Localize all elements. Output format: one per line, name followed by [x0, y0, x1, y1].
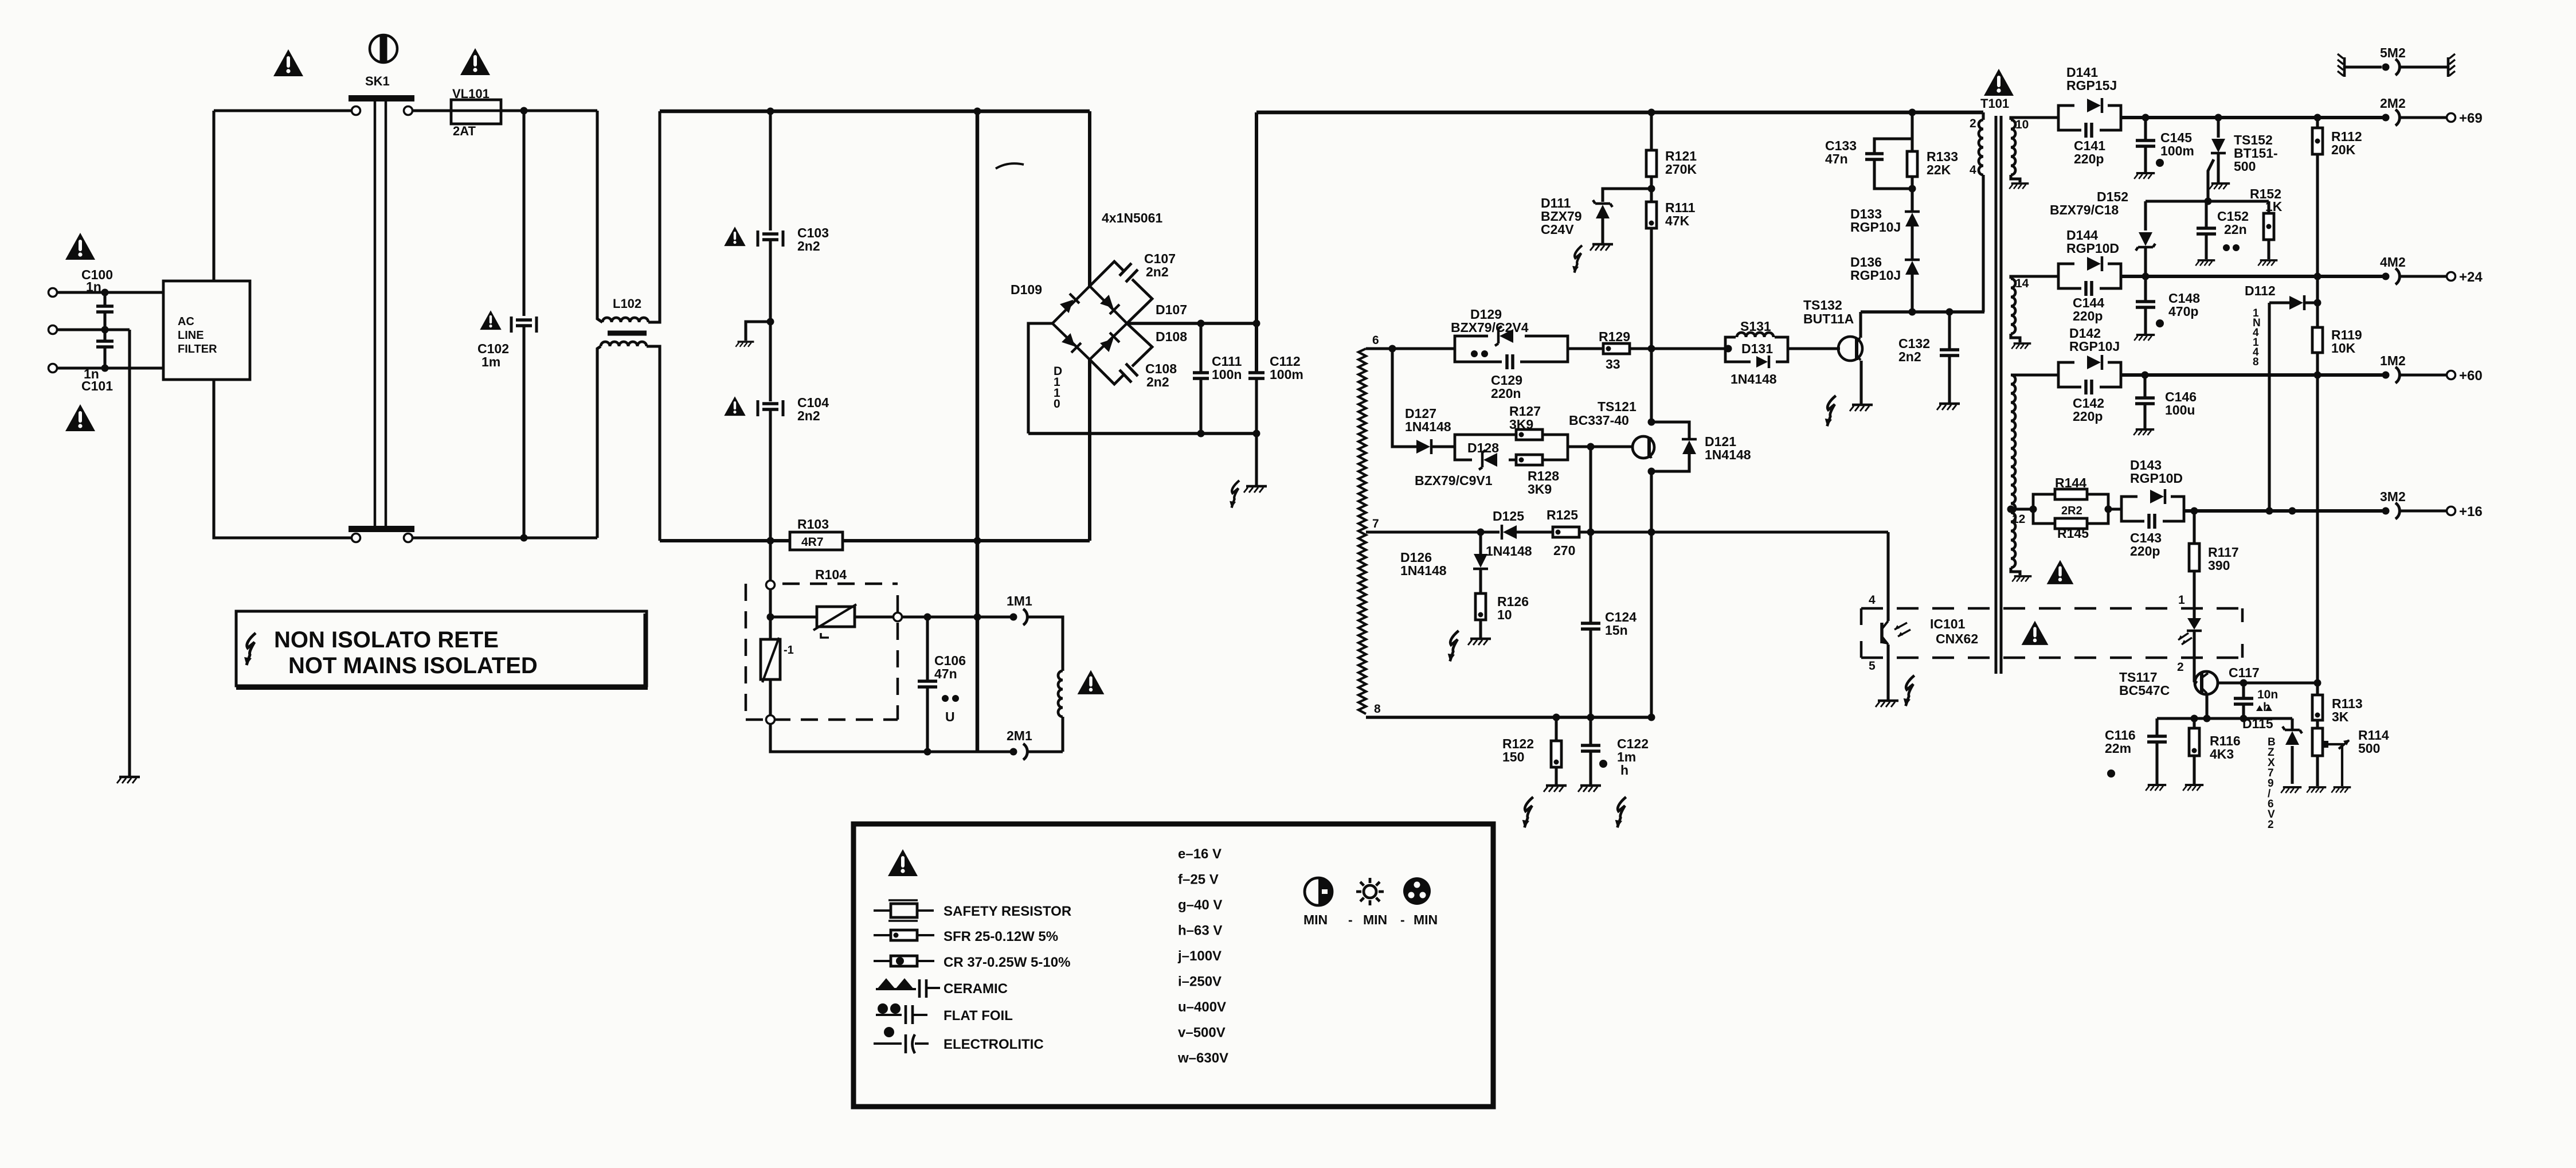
legend saturation icon [1403, 877, 1431, 905]
ground R114 [2307, 787, 2326, 792]
junction [2142, 273, 2150, 280]
legend ceramic capacitor [877, 978, 914, 989]
svg-text:e–16 V: e–16 V [1178, 846, 1222, 862]
resistor R144 2R2 [2055, 489, 2087, 499]
svg-text:20K: 20K [2331, 142, 2356, 157]
warning triangle [2047, 560, 2074, 584]
wire D126 to R126 [1479, 569, 1482, 593]
junction [101, 365, 109, 372]
wire C124 to pin8 rail [1589, 629, 1592, 717]
svg-text:1N4148: 1N4148 [1731, 372, 1777, 386]
capacitor C146 100u [2135, 398, 2155, 404]
wire 2M1 to coil [1028, 750, 1063, 753]
wire D125 to R125 [1516, 530, 1553, 533]
zener diode D129 BZX79/C2V4 [1500, 329, 1513, 343]
wire TS152 gate [2208, 159, 2214, 201]
wire gate line [2146, 200, 2269, 202]
node TS121 base [1587, 443, 1595, 451]
wire to TS121 base [1568, 445, 1633, 448]
terminal +69 [2447, 114, 2456, 122]
legend brightness icon [1364, 885, 1376, 898]
transformer T101 feedback winding pins 6-7-8 [1359, 349, 1366, 714]
AC line filter block [163, 281, 250, 380]
svg-text:SAFETY RESISTOR: SAFETY RESISTOR [944, 904, 1071, 919]
svg-text:2R2: 2R2 [2061, 505, 2082, 517]
wire degauss feed vertical [976, 111, 980, 752]
svg-text:R145: R145 [2057, 526, 2089, 541]
inductor S131 [1737, 333, 1774, 337]
wire C148 bottom [2144, 307, 2147, 334]
svg-text:C101: C101 [81, 378, 113, 393]
degauss PTC R104 dashed box [746, 584, 898, 720]
svg-text:10n: 10n [2257, 688, 2278, 701]
svg-text:2: 2 [2177, 661, 2184, 674]
wire R116 bottom [2193, 756, 2195, 784]
node mains input N [49, 326, 57, 334]
wire C102 top lead [522, 111, 525, 316]
wire to C103 [769, 111, 772, 231]
svg-text:47n: 47n [1825, 151, 1848, 166]
degaussing coil [1058, 671, 1063, 717]
wire C112 from DC rail [1255, 112, 1258, 372]
node winding12 tap [2007, 506, 2015, 513]
flat foil marker C106 [942, 695, 949, 702]
resistor R129 33 [1603, 343, 1630, 354]
svg-text:i–250V: i–250V [1178, 974, 1222, 990]
svg-text:100m: 100m [1270, 367, 1303, 382]
diode D109 (bridge upper-left) [1059, 294, 1079, 314]
svg-text:MIN: MIN [1414, 912, 1438, 927]
junction [2266, 507, 2273, 515]
wire R117 top [2193, 511, 2195, 544]
junction [101, 289, 109, 296]
svg-text:1n: 1n [86, 279, 101, 294]
svg-text:1M2: 1M2 [2380, 353, 2406, 368]
legend contrast icon [1305, 878, 1332, 905]
wire to D111 [1603, 189, 1651, 202]
node C102 bottom [520, 534, 528, 542]
junction [1553, 714, 1560, 721]
capacitor C148 470p [2136, 302, 2155, 307]
wire C146 top [2143, 375, 2146, 397]
wire D115 top [2291, 718, 2293, 730]
wire 1M1 to degauss coil [1028, 617, 1063, 671]
wire TS121 emitter down [1650, 471, 1653, 717]
svg-text:RGP15J: RGP15J [2066, 78, 2117, 93]
svg-text:1m: 1m [481, 354, 500, 369]
wire winding14 to ground [2011, 334, 2020, 342]
warning triangle [1984, 69, 2014, 96]
wire C101 top lead [103, 330, 106, 341]
lightning not-isolated mark [1615, 797, 1626, 827]
terminal +60 [2447, 371, 2456, 380]
junction [2215, 114, 2222, 122]
potentiometer R114 wiper [2323, 741, 2328, 748]
wire input bottom [57, 366, 163, 369]
svg-text:4M2: 4M2 [2380, 255, 2406, 269]
capacitor C116 22m [2147, 736, 2167, 742]
svg-text:T101: T101 [1980, 96, 2009, 111]
wire L102 upper to top rail [648, 111, 660, 322]
capacitor C141 220p [2086, 123, 2092, 138]
svg-text:CERAMIC: CERAMIC [944, 981, 1008, 997]
svg-text:0: 0 [1054, 397, 1060, 411]
svg-text:12: 12 [2012, 513, 2025, 526]
ground D115 [2281, 787, 2301, 793]
capacitor C107 2n2 snubber [1090, 261, 1152, 323]
lightning not-isolated mark [1230, 481, 1239, 508]
diode D142 RGP10J [2058, 362, 2121, 387]
resistor R119 10K [2312, 327, 2323, 353]
diode D110 (bridge lower-left) [1061, 333, 1081, 353]
junction [2240, 715, 2248, 722]
diode D143 RGP10D [2121, 497, 2184, 521]
wire R112 top [2316, 118, 2319, 128]
junction [1648, 468, 1655, 475]
wire C152 top [2205, 201, 2207, 227]
diode D125 1N4148 [1503, 525, 1517, 539]
electrolytic marker C148 [2156, 319, 2164, 327]
wire R119 to +60 [2316, 353, 2319, 375]
svg-text:TS132: TS132 [1803, 298, 1842, 312]
svg-text:+69: +69 [2459, 111, 2483, 126]
svg-text:5: 5 [1869, 659, 1876, 673]
svg-text:3K9: 3K9 [1528, 482, 1552, 497]
ground earth input [117, 777, 140, 783]
node 4M2 [2382, 273, 2390, 280]
node C102 top [520, 107, 528, 115]
svg-text:1N4148: 1N4148 [1486, 544, 1532, 558]
network S131 / D131 box [1725, 337, 1788, 362]
mains plug SK1 [370, 35, 397, 62]
flat foil marker C152 [2223, 244, 2230, 251]
capacitor [918, 681, 937, 687]
thyristor TS152 BT151-500 [2211, 139, 2225, 153]
wire R112 to +24 [2316, 154, 2319, 276]
svg-text:4R7: 4R7 [801, 536, 824, 549]
svg-text:TS121: TS121 [1598, 399, 1637, 414]
inductor L102 upper winding [602, 318, 648, 322]
network D128 / R127 / R128 box [1455, 435, 1568, 460]
wire D111 to ground [1601, 217, 1604, 243]
svg-text:7: 7 [1372, 517, 1379, 530]
svg-text:RGP10J: RGP10J [1850, 220, 1901, 235]
wire to R119 [2316, 276, 2319, 327]
terminal degauss bottom [766, 716, 775, 724]
svg-text:U: U [945, 709, 955, 724]
network D129 / C129 box [1455, 336, 1568, 362]
junction [2105, 506, 2112, 513]
svg-text:5M2: 5M2 [2380, 45, 2406, 60]
bridge diamond D107 D108 D109 D110 [1052, 286, 1127, 360]
terminal +16 [2447, 507, 2456, 515]
diode D133 RGP10J [1905, 213, 1919, 226]
svg-text:FILTER: FILTER [178, 343, 217, 356]
svg-text:15n: 15n [1605, 623, 1628, 638]
node snubber rail [1909, 109, 1916, 116]
svg-text:1: 1 [2178, 593, 2185, 607]
node R111/R129 [1648, 345, 1655, 353]
diode D144 RGP10D [2087, 257, 2101, 271]
svg-text:VL101: VL101 [452, 87, 490, 101]
junction [2191, 507, 2198, 515]
diode D141 RGP15J [2058, 106, 2121, 130]
node 3M2 [2382, 507, 2390, 515]
wire to C133 [1874, 139, 1912, 153]
svg-text:270: 270 [1553, 543, 1575, 558]
legend SFR resistor [874, 934, 934, 936]
svg-text:IC101: IC101 [1930, 616, 1966, 631]
svg-text:220p: 220p [2074, 151, 2104, 166]
warning triangle [65, 404, 95, 431]
resistor R127 3K9 [1516, 429, 1543, 440]
ground R126 [1468, 639, 1491, 645]
wire D115 bottom [2291, 746, 2293, 784]
wire to D136 [1911, 267, 1913, 312]
lightning not-isolated mark [244, 633, 256, 665]
svg-text:AC: AC [178, 315, 194, 328]
wire mid to ground [128, 330, 131, 776]
wire coil to 2M1 [1061, 717, 1064, 752]
capacitor C132 2n2 [1940, 350, 1959, 356]
junction [1648, 419, 1655, 426]
svg-text:LINE: LINE [178, 329, 204, 342]
lightning not-isolated mark [1448, 631, 1459, 661]
wire L102 lower to bottom [597, 346, 601, 538]
wire D152 to +24 [2144, 247, 2147, 276]
svg-text:g–40 V: g–40 V [1178, 897, 1222, 913]
node mains input L [49, 288, 57, 297]
svg-text:BZX79/C2V4: BZX79/C2V4 [1451, 320, 1529, 335]
wire 1M2 to +60 [2400, 373, 2446, 376]
ground C132 [1937, 404, 1960, 410]
resistor R112 20K [2312, 128, 2323, 154]
ground hot primary [1244, 486, 1267, 493]
wire to PTC horizontal [770, 615, 817, 618]
junction [2314, 372, 2321, 379]
svg-text:2M2: 2M2 [2380, 96, 2406, 111]
junction [1253, 320, 1260, 327]
svg-text:47K: 47K [1665, 213, 1690, 228]
svg-text:w–630V: w–630V [1177, 1050, 1228, 1066]
svg-text:RGP10J: RGP10J [2069, 339, 2120, 354]
wire C112 to hot ground [1255, 378, 1258, 485]
wire bridge AC top [1088, 111, 1091, 286]
wire winding10 to ground [2011, 175, 2020, 182]
svg-text:2AT: 2AT [453, 124, 476, 138]
node mains input E [49, 364, 57, 373]
wire R122 top [1555, 717, 1557, 741]
node 2M1 [1010, 748, 1017, 756]
svg-text:3K: 3K [2332, 709, 2349, 724]
lightning not-isolated mark [1522, 797, 1533, 827]
network R144 / R145 box [2033, 494, 2108, 524]
capacitor C129 220n [1507, 354, 1513, 369]
svg-text:R144: R144 [2055, 475, 2086, 490]
wire C117 top lead [2242, 683, 2245, 697]
svg-text:NOT MAINS ISOLATED: NOT MAINS ISOLATED [288, 653, 538, 678]
wire to R121 [1650, 112, 1653, 150]
warning triangle [888, 849, 918, 876]
capacitor C143 220p [2149, 514, 2155, 529]
wire to TS132 base [1788, 347, 1840, 350]
svg-text:D112: D112 [2245, 283, 2276, 298]
svg-text:L102: L102 [613, 296, 641, 311]
wire D112 to R112 line [2305, 301, 2317, 304]
ground primary box [735, 342, 754, 347]
transistor TS121 BC337-40 [1632, 436, 1654, 458]
wire pin4 down [1982, 175, 1984, 312]
svg-text:500: 500 [2358, 741, 2380, 756]
svg-text:MIN: MIN [1363, 912, 1387, 927]
wire C104 to bottom rail [769, 409, 772, 541]
svg-text:100u: 100u [2165, 403, 2195, 417]
wire C116 bottom [2155, 742, 2158, 784]
wire to D152 [2144, 201, 2147, 231]
wire D121 top bracket [1651, 422, 1689, 438]
wire R122 to ground [1555, 767, 1557, 784]
svg-text:RGP10J: RGP10J [1850, 268, 1901, 283]
junction [974, 614, 981, 621]
wire to D127 [1392, 349, 1416, 447]
wire box bottom rail left [660, 539, 790, 542]
junction [2289, 507, 2296, 515]
ground C145 [2134, 173, 2155, 179]
wire R125 to IC101 pin4 [1579, 530, 1888, 533]
svg-text:100m: 100m [2160, 143, 2194, 158]
svg-text:R104: R104 [815, 567, 847, 582]
node 1M2 [2382, 372, 2390, 379]
wire C117 bottom lead [2242, 704, 2245, 718]
electrolytic marker C122 [1599, 760, 1607, 768]
wire R116 top [2193, 718, 2195, 728]
legend CR resistor [874, 960, 934, 962]
wire IC101 pin4 [1886, 532, 1889, 621]
wire D112 left [2269, 301, 2291, 304]
terminal SK1 top-left [352, 107, 361, 115]
ground winding 14 [2011, 343, 2031, 349]
svg-text:D128: D128 [1467, 440, 1499, 455]
wire to degauss terminal [769, 541, 772, 581]
connector 5M2 [2343, 57, 2346, 77]
svg-text:MIN: MIN [1303, 912, 1328, 927]
wire D133 to RC [1911, 189, 1913, 212]
wire rail to primary [1982, 112, 1984, 120]
resistor R122 150 [1551, 741, 1561, 767]
svg-text:BZX79/C9V1: BZX79/C9V1 [1415, 473, 1493, 488]
capacitor C117 10n [2234, 698, 2253, 704]
svg-text:R125: R125 [1547, 507, 1578, 522]
wire R129 to S131 [1630, 347, 1728, 350]
wire box top rail [660, 110, 1090, 114]
capacitor C142 220p [2086, 380, 2092, 394]
wire C100 bottom lead [103, 313, 106, 330]
diode D127 1N4148 [1416, 440, 1430, 454]
warning triangle [65, 233, 95, 260]
svg-text:470p: 470p [2168, 304, 2198, 319]
resistor R117 390 [2189, 544, 2199, 571]
svg-text:D115: D115 [2242, 716, 2273, 731]
junction [1587, 714, 1595, 721]
wire box bottom rail right [843, 539, 1090, 542]
node R103 line [767, 537, 774, 545]
wire +24 rail [2121, 275, 2382, 278]
wire +69 rail [2121, 116, 2382, 119]
PTC thermistor R104a [817, 607, 855, 627]
svg-text:8: 8 [1374, 702, 1381, 716]
optocoupler IC101 CNX62 LED [2187, 618, 2201, 630]
resistor R121 270K [1646, 150, 1657, 177]
svg-text:h–63 V: h–63 V [1178, 923, 1222, 939]
wire TS132 collector [1859, 312, 1862, 338]
node C103 rail [767, 108, 774, 115]
capacitor [762, 404, 778, 409]
wire C122 top [1589, 717, 1592, 744]
wire C106 bottom lead [926, 687, 929, 752]
svg-text:BC337-40: BC337-40 [1569, 413, 1629, 428]
wire TS152 anode [2217, 118, 2219, 138]
diode D141 RGP15J [2087, 99, 2101, 112]
T101 core [1996, 116, 2001, 674]
svg-text:+60: +60 [2459, 368, 2483, 384]
wire to D126 [1479, 532, 1482, 554]
L102 core [608, 331, 647, 336]
svg-text:1N4148: 1N4148 [1405, 419, 1451, 434]
svg-text:150: 150 [1502, 749, 1524, 764]
PTC thermistor R104b [761, 639, 780, 679]
junction [2142, 114, 2150, 122]
svg-text:-: - [1400, 912, 1405, 927]
svg-text:4x1N5061: 4x1N5061 [1102, 210, 1162, 225]
svg-text:220p: 220p [2073, 409, 2103, 424]
junction [1909, 185, 1916, 193]
wire TS132 emitter [1859, 361, 1862, 404]
wire winding14 to D144 [2011, 276, 2058, 279]
svg-text:ELECTROLITIC: ELECTROLITIC [944, 1037, 1044, 1052]
wire tap to R144 [2011, 507, 2033, 510]
junction [1648, 185, 1655, 193]
wire input mid [57, 328, 130, 331]
wire IC101 pin5 [1886, 644, 1889, 700]
junction [1725, 345, 1732, 353]
resistor R128 3K9 [1516, 455, 1543, 465]
resistor R111 47K [1646, 202, 1657, 228]
junction [1197, 320, 1205, 327]
wire +60 to R113 [2316, 375, 2319, 695]
node pin6 branch [1389, 345, 1396, 353]
svg-text:D125: D125 [1493, 509, 1524, 524]
wire C152 bottom [2205, 234, 2207, 259]
legend box [854, 824, 1493, 1107]
zener diode D111 BZX79/C24V [1596, 205, 1610, 218]
wire +16 rail [2184, 509, 2382, 513]
svg-text:4K3: 4K3 [2210, 747, 2234, 761]
capacitor [762, 234, 778, 240]
note box NON ISOLATO RETE [236, 611, 647, 686]
diode D121 1N4148 [1682, 440, 1696, 454]
resistor R133 22K [1907, 151, 1917, 177]
wire R111 down [1650, 228, 1653, 349]
wire 2M2 to +69 [2400, 116, 2446, 119]
svg-text:2: 2 [2268, 819, 2274, 831]
ground winding 10 [2009, 183, 2029, 189]
svg-text:S131: S131 [1740, 319, 1771, 334]
inductor L102 lower winding [601, 342, 647, 346]
transistor TS117 BC547C [2195, 671, 2218, 694]
svg-text:47n: 47n [934, 666, 957, 681]
capacitor C101 [96, 341, 113, 347]
wire TS152 cathode [2217, 153, 2219, 182]
